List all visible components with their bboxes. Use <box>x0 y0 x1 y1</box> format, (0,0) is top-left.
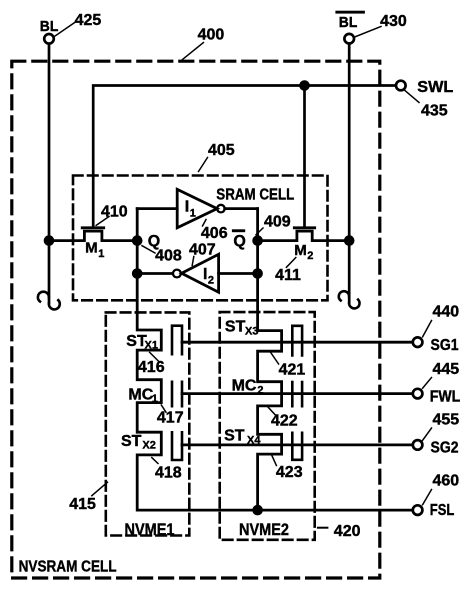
BL continuation hook <box>38 292 60 310</box>
label 400 <box>183 27 225 60</box>
svg-text:ST: ST <box>224 427 245 444</box>
svg-text:FWL: FWL <box>430 389 461 406</box>
label 421 <box>270 351 306 378</box>
wire SG1 line <box>182 341 413 344</box>
svg-text:2: 2 <box>208 275 214 287</box>
label 420 <box>318 523 361 540</box>
svg-text:BL: BL <box>40 18 59 35</box>
box 400 NVSRAM cell dashed border <box>12 61 380 578</box>
label NVME2 <box>239 520 289 539</box>
svg-text:NVSRAM CELL: NVSRAM CELL <box>19 558 117 575</box>
svg-text:ST: ST <box>121 433 142 450</box>
label 411 <box>275 258 301 284</box>
svg-text:MC: MC <box>232 378 257 395</box>
label 408 <box>142 246 182 265</box>
svg-text:440: 440 <box>433 304 460 321</box>
junction dot FSL / right chain <box>252 505 263 516</box>
svg-text:M: M <box>294 242 307 259</box>
svg-text:SWL: SWL <box>417 79 453 96</box>
svg-text:407: 407 <box>189 241 216 258</box>
svg-text:400: 400 <box>198 27 225 44</box>
label 425 <box>55 12 101 36</box>
wire I1 output to Q-bar <box>225 207 258 210</box>
label 418 <box>152 458 182 482</box>
terminal BL <box>40 18 59 44</box>
label 410 <box>96 204 128 226</box>
transistor STx3 gate <box>225 319 302 356</box>
label 435 <box>405 90 448 119</box>
svg-text:I: I <box>203 266 207 283</box>
wire BL vertical <box>48 44 51 303</box>
junction dot Q lower <box>132 268 143 279</box>
svg-text:460: 460 <box>433 473 460 490</box>
label 440 <box>423 304 460 337</box>
terminal FSL <box>413 502 454 519</box>
label 406 <box>201 220 228 243</box>
wire right chain rail with channel bumps <box>258 209 282 511</box>
svg-text:410: 410 <box>101 204 128 221</box>
svg-text:MC: MC <box>128 387 153 404</box>
terminal SWL <box>396 79 454 96</box>
label NVSRAM CELL <box>19 558 117 575</box>
svg-text:X3: X3 <box>245 326 258 338</box>
label 460 <box>423 473 460 505</box>
box 415 NVME1 dashed border <box>106 312 190 535</box>
svg-text:455: 455 <box>433 412 460 429</box>
wire BL-bar vertical <box>348 44 351 303</box>
transistor M2 <box>258 228 350 262</box>
svg-text:X1: X1 <box>145 340 158 352</box>
junction dot BL / M1 <box>44 235 55 246</box>
svg-text:M: M <box>85 240 98 257</box>
svg-text:NVME2: NVME2 <box>239 520 289 539</box>
transistor STx4 gate <box>224 427 302 460</box>
svg-text:FSL: FSL <box>430 502 455 519</box>
wire I2 input from Q-bar <box>219 272 258 275</box>
svg-text:411: 411 <box>275 267 301 284</box>
svg-text:420: 420 <box>334 523 361 540</box>
svg-text:SG1: SG1 <box>431 337 459 354</box>
svg-text:NVME1: NVME1 <box>125 520 175 539</box>
junction dot BL-bar / M2 <box>344 235 355 246</box>
terminal BL-bar <box>335 11 365 44</box>
svg-text:445: 445 <box>433 361 460 378</box>
svg-text:Q: Q <box>233 233 245 250</box>
label 409 <box>256 213 291 235</box>
transistor MC1 floating gate <box>128 382 182 406</box>
svg-text:I: I <box>185 199 189 216</box>
svg-text:1: 1 <box>98 248 104 260</box>
wire I2 output to Q <box>137 272 172 275</box>
svg-text:423: 423 <box>276 464 303 481</box>
label SRAM CELL <box>216 186 294 203</box>
wire SWL to gate of M2 <box>303 86 306 227</box>
svg-text:BL: BL <box>339 14 358 31</box>
svg-text:1: 1 <box>152 393 158 405</box>
svg-text:435: 435 <box>421 103 448 120</box>
svg-text:417: 417 <box>157 410 184 427</box>
wire FWL line <box>182 392 413 395</box>
box 420 NVME2 dashed border <box>220 312 315 540</box>
box 405 SRAM cell dashed border <box>73 176 328 301</box>
svg-text:416: 416 <box>138 359 165 376</box>
label 422 <box>268 407 297 429</box>
svg-text:415: 415 <box>69 496 96 513</box>
node Q <box>132 233 160 250</box>
label 445 <box>423 361 460 388</box>
svg-text:X2: X2 <box>142 440 155 452</box>
wire left chain rail with channel bumps and FSL bottom wire <box>137 209 412 511</box>
label 430 <box>356 13 407 37</box>
svg-text:421: 421 <box>279 362 306 379</box>
op-amp inverter I2 <box>173 254 219 292</box>
op-amp inverter I1 <box>177 189 225 227</box>
label 416 <box>138 352 165 376</box>
svg-text:430: 430 <box>380 13 407 30</box>
terminal SG2 <box>413 440 459 457</box>
transistor MC2 floating gate <box>232 378 303 407</box>
label 415 <box>69 482 107 513</box>
wire SG2 line <box>182 443 413 446</box>
transistor STx2 gate <box>121 432 182 460</box>
svg-text:406: 406 <box>201 225 228 242</box>
junction dot SWL / M2 gate <box>299 80 310 91</box>
svg-text:405: 405 <box>208 142 235 159</box>
svg-text:425: 425 <box>75 12 102 29</box>
transistor STx1 gate <box>126 326 182 355</box>
label NVME1 <box>125 520 175 539</box>
wire SWL to gate of M1 <box>93 86 395 227</box>
terminal FWL <box>413 389 460 406</box>
svg-text:418: 418 <box>155 465 182 482</box>
node Q-bar <box>232 229 263 250</box>
label 423 <box>271 454 302 481</box>
svg-text:1: 1 <box>190 208 196 220</box>
BL-bar continuation hook <box>339 291 360 308</box>
svg-text:2: 2 <box>307 250 313 262</box>
svg-text:SRAM CELL: SRAM CELL <box>216 186 294 203</box>
svg-text:409: 409 <box>264 213 291 230</box>
svg-text:ST: ST <box>225 319 246 336</box>
label 405 <box>199 142 235 172</box>
junction dot Q-bar lower <box>252 268 263 279</box>
wire I1 input from Q <box>137 207 177 210</box>
label 455 <box>423 412 460 441</box>
transistor M1 <box>49 228 137 260</box>
svg-text:408: 408 <box>155 247 182 264</box>
terminal SG1 <box>413 337 459 354</box>
svg-text:SG2: SG2 <box>431 440 459 457</box>
label 407 <box>189 241 216 265</box>
label 417 <box>157 405 184 427</box>
